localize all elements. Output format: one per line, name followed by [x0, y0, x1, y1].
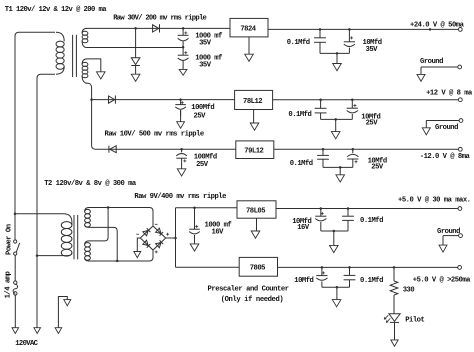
svg-text:1/4 amp: 1/4 amp — [5, 272, 13, 299]
svg-text:Power On: Power On — [6, 224, 14, 255]
svg-text:Ground: Ground — [437, 228, 460, 236]
svg-text:Raw 30V/ 200 mv rms ripple: Raw 30V/ 200 mv rms ripple — [113, 15, 206, 23]
svg-text:+24.0 V @ 50ma: +24.0 V @ 50ma — [410, 21, 465, 29]
svg-text:0.1Mfd: 0.1Mfd — [360, 217, 383, 225]
svg-text:35V: 35V — [199, 39, 212, 47]
svg-text:0.1Mfd: 0.1Mfd — [360, 277, 383, 285]
svg-text:25V: 25V — [366, 120, 379, 128]
svg-text:Prescaler and Counter: Prescaler and Counter — [208, 285, 289, 293]
svg-text:7824: 7824 — [240, 25, 256, 33]
svg-text:+5.0 V @ 30 ma max.: +5.0 V @ 30 ma max. — [398, 197, 470, 205]
svg-text:(Only if needed): (Only if needed) — [221, 296, 284, 304]
svg-text:Ground: Ground — [435, 124, 458, 132]
svg-text:-12.0 V @ 8ma: -12.0 V @ 8ma — [420, 153, 471, 161]
svg-text:78L12: 78L12 — [243, 98, 262, 106]
svg-text:79L12: 79L12 — [244, 148, 263, 156]
svg-text:10Mfd: 10Mfd — [294, 277, 313, 285]
svg-text:16V: 16V — [297, 224, 310, 232]
svg-text:35V: 35V — [366, 46, 379, 54]
svg-text:Ground: Ground — [420, 58, 443, 66]
svg-text:25V: 25V — [196, 161, 209, 169]
svg-text:0.1Mfd: 0.1Mfd — [288, 111, 311, 119]
svg-text:330: 330 — [403, 286, 415, 294]
svg-text:0.1Mfd: 0.1Mfd — [287, 39, 310, 47]
svg-text:Raw 10V/ 500 mv rms ripple: Raw 10V/ 500 mv rms ripple — [105, 130, 204, 138]
svg-text:35V: 35V — [199, 62, 212, 70]
svg-text:25V: 25V — [371, 164, 384, 172]
svg-text:100Mfd: 100Mfd — [194, 153, 217, 161]
svg-text:7805: 7805 — [250, 265, 265, 273]
svg-text:100Mfd: 100Mfd — [191, 104, 214, 112]
svg-text:25V: 25V — [194, 112, 207, 120]
svg-text:Pilot: Pilot — [405, 316, 424, 324]
svg-text:78L05: 78L05 — [246, 207, 265, 215]
svg-text:120VAC: 120VAC — [15, 340, 38, 347]
svg-text:+5.0 V @ >250ma: +5.0 V @ >250ma — [413, 276, 471, 284]
svg-text:T1 120v/ 12v & 12v @ 200 ma: T1 120v/ 12v & 12v @ 200 ma — [5, 6, 108, 14]
svg-text:16V: 16V — [212, 228, 225, 236]
svg-text:+12 V @ 8 ma: +12 V @ 8 ma — [426, 90, 473, 98]
svg-text:Raw 9V/400 mv rms ripple: Raw 9V/400 mv rms ripple — [134, 193, 226, 201]
svg-text:0.1Mfd: 0.1Mfd — [290, 160, 313, 168]
svg-text:T2 120v/8v & 8v @ 300 ma: T2 120v/8v & 8v @ 300 ma — [44, 180, 137, 188]
